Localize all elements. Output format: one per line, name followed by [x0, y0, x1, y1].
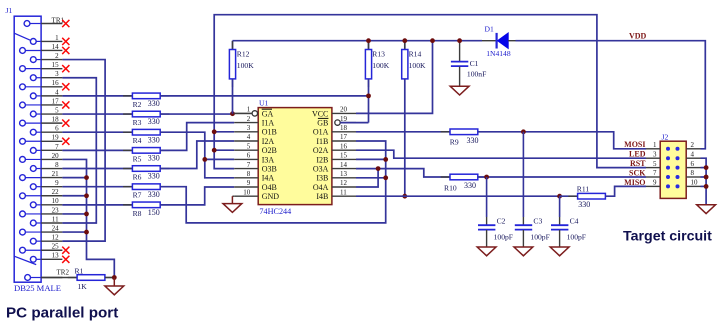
svg-text:330: 330 [148, 154, 160, 163]
J1 pin 6 [30, 129, 36, 135]
svg-text:1: 1 [247, 106, 251, 114]
svg-text:1N4148: 1N4148 [486, 49, 511, 58]
junction [430, 38, 435, 43]
svg-text:R1: R1 [75, 267, 84, 276]
no-connect X pin 18 [62, 120, 69, 127]
J2 pin 5 [666, 166, 669, 169]
junction [366, 93, 371, 98]
svg-text:16: 16 [52, 79, 60, 87]
junction [230, 111, 235, 116]
svg-text:3: 3 [55, 70, 59, 78]
svg-text:150: 150 [148, 208, 160, 217]
svg-text:8: 8 [55, 161, 59, 169]
J1 pin 13 [30, 256, 36, 262]
wire GND pin10 to ground [232, 195, 234, 197]
svg-text:18: 18 [52, 116, 60, 124]
wire J2 pin 8 to ground bus [701, 176, 707, 178]
J1 pin TR1 stub [41, 23, 62, 25]
svg-text:330: 330 [578, 200, 590, 209]
svg-text:5: 5 [653, 160, 657, 168]
resistor R3 330 [123, 113, 132, 115]
U1 pin 20 lead [332, 112, 356, 114]
svg-text:R4: R4 [133, 136, 142, 145]
wire TR2 to R1 [41, 277, 77, 279]
no-connect X pin 15 [62, 65, 69, 72]
svg-text:C1: C1 [470, 59, 479, 68]
J1 pin 17 stub [41, 104, 62, 106]
wire J1 to R4 [62, 131, 132, 133]
resistor R6 330 [123, 168, 132, 170]
svg-text:330: 330 [148, 190, 160, 199]
J2 pin 6 lead [686, 167, 700, 169]
svg-text:R7: R7 [133, 191, 142, 200]
U1 pin 17 lead [332, 140, 356, 142]
J2 pin 4 lead [686, 157, 700, 159]
J1 pin 5 stub [41, 113, 62, 115]
junction [484, 175, 489, 180]
wire R13 bottom to GB pin19 [340, 122, 368, 124]
svg-text:I3A: I3A [262, 155, 275, 164]
wire J1 pin 22 to ground bus [62, 195, 86, 197]
junction [383, 175, 388, 180]
U1 pin 14 lead [332, 168, 356, 170]
svg-text:2: 2 [247, 115, 251, 123]
U1 pin 3 lead [234, 131, 258, 133]
svg-text:DB25 MALE: DB25 MALE [14, 283, 61, 293]
svg-text:100nF: 100nF [467, 69, 486, 78]
ground symbol under C4 [550, 247, 569, 256]
J1 pin 8 stub [41, 168, 62, 170]
J2 pin 2 lead [686, 148, 700, 150]
J1 pin 23 [20, 211, 26, 217]
U1 pin 10 lead [234, 195, 258, 197]
wire J2 pin 6 to ground bus [701, 167, 707, 169]
svg-text:10: 10 [52, 197, 60, 205]
svg-text:17: 17 [52, 97, 60, 105]
svg-text:RST: RST [630, 159, 646, 168]
J1 pin 21 [20, 175, 26, 181]
svg-text:100K: 100K [409, 61, 426, 70]
no-connect X pin 25 [62, 247, 69, 254]
svg-text:3: 3 [653, 150, 657, 158]
J2 pin 7 lead [646, 176, 660, 178]
svg-text:R13: R13 [372, 50, 385, 59]
ground symbol at U1 GND [231, 196, 233, 203]
junction [212, 148, 217, 153]
ground symbol under C3 [514, 247, 533, 256]
svg-text:C4: C4 [570, 216, 579, 225]
junction [366, 38, 371, 43]
junction [457, 38, 462, 43]
svg-text:I2A: I2A [262, 137, 275, 146]
J2 pin 1 [666, 147, 669, 150]
svg-text:330: 330 [148, 117, 160, 126]
svg-text:VDD: VDD [629, 32, 647, 41]
svg-text:R12: R12 [237, 50, 250, 59]
J2 pin 3 lead [646, 157, 660, 159]
wire R3 output to GA (with R12 pullup) [160, 113, 232, 115]
svg-text:5: 5 [55, 106, 59, 114]
J1 pin 9 stub [41, 186, 62, 188]
J1 pin 11 stub [41, 222, 62, 224]
svg-text:I2B: I2B [316, 155, 328, 164]
svg-text:20: 20 [52, 152, 60, 160]
resistor R9 330 [441, 131, 450, 133]
resistor R11 330 [560, 195, 578, 197]
U1 pin 13 lead [332, 177, 356, 179]
svg-text:O2B: O2B [262, 146, 277, 155]
resistor R7 330 [123, 186, 132, 188]
svg-text:25: 25 [52, 243, 60, 251]
wire I3B branch [356, 177, 386, 179]
J1 shell pin TR1 [24, 21, 30, 27]
svg-text:MISO: MISO [624, 178, 645, 187]
ground symbol under C2 [477, 247, 496, 256]
svg-text:13: 13 [340, 170, 348, 178]
capacitor C1 100nF [459, 41, 461, 62]
svg-text:4: 4 [691, 150, 695, 158]
wire J1 to R5 [62, 149, 132, 151]
svg-text:J1: J1 [6, 6, 13, 15]
wire VDD from D1 anode to J2 pin2 [516, 41, 706, 149]
J1 pin 24 [20, 229, 26, 235]
J1 pin 3 [30, 75, 36, 81]
svg-text:I1A: I1A [262, 119, 275, 128]
wire ground bus J1 pins 20-24 [62, 159, 114, 277]
svg-text:16: 16 [340, 142, 348, 150]
svg-text:SCK: SCK [629, 168, 646, 177]
wire J1 to R2 [62, 95, 132, 97]
no-connect X pin 17 [62, 101, 69, 108]
wire I4B / MISO line [356, 195, 560, 197]
J1 pin 1 stub [41, 40, 62, 42]
svg-text:GND: GND [262, 192, 280, 201]
J1 pin 10 [30, 202, 36, 208]
svg-text:330: 330 [464, 181, 476, 190]
svg-text:I1B: I1B [316, 137, 328, 146]
J2 pin 10 lead [686, 185, 700, 187]
svg-text:13: 13 [52, 252, 60, 260]
junction [84, 193, 89, 198]
wire J1 pin 21 to ground bus [62, 177, 86, 179]
junction [704, 165, 709, 170]
svg-text:74HC244: 74HC244 [259, 207, 291, 216]
junction [84, 212, 89, 217]
connector J1 (DB25) body [14, 16, 41, 282]
no-connect X pin 1 [62, 38, 69, 45]
U1 pin 4 lead [234, 140, 258, 142]
svg-text:24: 24 [52, 224, 60, 232]
svg-text:7: 7 [653, 169, 657, 177]
J1 pin 4 stub [41, 95, 62, 97]
wire O2A to J2 LED [356, 150, 646, 158]
J1 pin 4 [30, 93, 36, 99]
J1 pin 11 [30, 220, 36, 226]
svg-text:6: 6 [691, 160, 695, 168]
wire I3A branch [205, 158, 234, 160]
svg-text:1: 1 [653, 141, 657, 149]
svg-text:4: 4 [55, 88, 59, 96]
wire J1 to R6 [62, 168, 132, 170]
svg-text:R10: R10 [444, 183, 457, 192]
wire J1 pin 23 to ground bus [62, 213, 86, 215]
svg-text:1: 1 [55, 34, 59, 42]
svg-text:9: 9 [55, 179, 59, 187]
svg-text:9: 9 [653, 179, 657, 187]
svg-text:7: 7 [55, 143, 59, 151]
junction [84, 175, 89, 180]
svg-text:21: 21 [52, 170, 60, 178]
J1 pin 15 stub [41, 68, 62, 70]
J1 pin 3 stub [41, 77, 62, 79]
J1 pin 24 stub [41, 231, 62, 233]
U1 pin 1 lead with inversion bubble [234, 112, 252, 114]
diode D1 1N4148 [482, 40, 497, 42]
U1 pin 7 lead [234, 168, 258, 170]
U1 pin 16 lead [332, 149, 356, 151]
junction [704, 175, 709, 180]
svg-text:1K: 1K [78, 282, 88, 291]
junction [376, 166, 381, 171]
svg-text:100K: 100K [237, 61, 254, 70]
J1 pin TR2 stub [41, 277, 62, 279]
svg-text:23: 23 [52, 206, 60, 214]
J2 pin 1 lead [646, 148, 660, 150]
svg-text:14: 14 [340, 161, 348, 169]
svg-text:6: 6 [247, 152, 251, 160]
wire I2B branch [356, 158, 386, 160]
resistor R8 150 [123, 204, 132, 206]
U1 pin 8 lead [234, 177, 258, 179]
J1 shell pin TR2 [25, 275, 31, 281]
svg-text:100pF: 100pF [494, 233, 513, 242]
resistor R2 330 [123, 95, 132, 97]
J1 pin 14 [20, 48, 26, 54]
wire O1B/O2B/O3B tied -> RST line over top [214, 15, 646, 169]
wire O1A to R9 [356, 131, 450, 133]
junction [202, 157, 207, 162]
resistor R10 330 [441, 176, 450, 178]
J2 pin 9 [666, 185, 669, 188]
svg-text:14: 14 [52, 43, 60, 51]
svg-text:15: 15 [52, 61, 60, 69]
J1 pin 9 [30, 184, 36, 190]
J1 pin 7 [30, 148, 36, 154]
svg-text:330: 330 [148, 135, 160, 144]
svg-text:100K: 100K [372, 61, 389, 70]
svg-text:3: 3 [247, 124, 251, 132]
svg-text:O1A: O1A [313, 128, 329, 137]
U1 pin 6 lead [234, 158, 258, 160]
junction [112, 275, 117, 280]
junction [704, 184, 709, 189]
svg-text:330: 330 [148, 172, 160, 181]
junction [383, 157, 388, 162]
U1 pin 2 lead [234, 122, 258, 124]
svg-text:12: 12 [52, 234, 60, 242]
J2 pin 3 [666, 157, 669, 160]
capacitor C4 100pF on MISO line [559, 196, 561, 217]
no-connect X pin 13 [62, 256, 69, 263]
J1 pin 7 stub [41, 149, 62, 151]
svg-text:15: 15 [340, 152, 348, 160]
U1 pin 9 lead [234, 186, 258, 188]
svg-text:I4A: I4A [262, 174, 275, 183]
wire J1 to R3 [62, 113, 132, 115]
J2 pin 10 [676, 185, 679, 188]
wire J1 pin 24 to ground bus [62, 231, 86, 233]
J1 pin 13 stub [41, 258, 62, 260]
svg-text:6: 6 [55, 125, 59, 133]
wire R7 output to B-side inputs (around chip) [160, 141, 386, 223]
wire O1B branch [214, 131, 234, 133]
wire R2 output to R13/GB junction [160, 95, 368, 97]
J1 pin 18 [20, 120, 26, 126]
resistor R12 100K (pullup on GA) [232, 41, 234, 50]
J2 pin 4 [676, 157, 679, 160]
no-connect X pin TR1 [62, 20, 69, 27]
no-connect X pin 16 [62, 83, 69, 90]
svg-text:8: 8 [691, 169, 695, 177]
svg-text:7: 7 [247, 161, 251, 169]
svg-text:11: 11 [52, 215, 59, 223]
svg-text:O4A: O4A [313, 183, 329, 192]
wire R9 to J2 MOSI [478, 132, 646, 149]
wire R4 output to I3A and I4A [160, 132, 234, 178]
J1 pin 21 stub [41, 177, 62, 179]
GB overline [318, 117, 329, 119]
J1 pin 25 [20, 247, 26, 253]
svg-text:J2: J2 [662, 133, 669, 142]
J1 pin 2 stub [41, 59, 62, 61]
svg-text:18: 18 [340, 124, 348, 132]
U1 pin 15 lead [332, 158, 356, 160]
svg-text:O1B: O1B [262, 128, 277, 137]
svg-text:I4B: I4B [316, 192, 328, 201]
J1 pin 10 stub [41, 204, 62, 206]
wire R5 output to I1A [160, 123, 234, 151]
J1 pin 16 stub [41, 86, 62, 88]
J2 pin 6 [676, 166, 679, 169]
junction [84, 230, 89, 235]
svg-text:VCC: VCC [312, 109, 328, 118]
ground symbol under R1 [113, 278, 115, 287]
no-connect X pin 14 [62, 47, 69, 54]
svg-text:19: 19 [52, 134, 60, 142]
wire R10 to J2 SCK [478, 176, 646, 178]
J1 pin 1 [30, 39, 36, 45]
J1 pin 25 stub [41, 249, 62, 251]
svg-text:8: 8 [247, 170, 251, 178]
U1 pin 19 lead with inversion bubble [340, 122, 356, 124]
svg-text:R5: R5 [133, 154, 142, 163]
J2 pin 7 [666, 175, 669, 178]
junction [402, 38, 407, 43]
svg-text:O4B: O4B [262, 183, 277, 192]
svg-text:O3B: O3B [262, 165, 277, 174]
wire J2 pin 10 to ground bus [701, 185, 707, 187]
svg-text:330: 330 [148, 99, 160, 108]
ground symbol under C1 [450, 86, 469, 95]
svg-text:U1: U1 [259, 98, 268, 107]
J2 pin 8 [676, 175, 679, 178]
J1 pin 22 stub [41, 195, 62, 197]
svg-text:R9: R9 [450, 137, 459, 146]
resistor R5 330 [123, 149, 132, 151]
svg-text:O2A: O2A [313, 146, 329, 155]
wire O2B branch [214, 149, 234, 151]
J1 pin 19 [20, 138, 26, 144]
J1 pin 2 [30, 57, 36, 63]
buffer IC U1 74HC244 body [258, 108, 332, 205]
svg-text:Target circuit: Target circuit [623, 229, 712, 245]
resistor R14 100K (pullup on MISO) [404, 41, 406, 50]
U1 pin 12 lead [332, 186, 356, 188]
svg-text:I3B: I3B [316, 174, 328, 183]
svg-text:C2: C2 [497, 216, 506, 225]
J1 pin 23 stub [41, 213, 62, 215]
svg-text:LED: LED [629, 150, 646, 159]
J1 pin 20 [20, 157, 26, 163]
svg-text:10: 10 [243, 188, 251, 196]
svg-text:R6: R6 [133, 173, 142, 182]
wire net D0: J1 pin2 to pin12 loopback [62, 60, 105, 242]
svg-text:17: 17 [340, 133, 348, 141]
junction [521, 129, 526, 134]
svg-text:20: 20 [340, 106, 348, 114]
svg-text:R11: R11 [577, 185, 590, 194]
wire R8 to O4B (PC acknowledge) [160, 187, 234, 205]
svg-text:MOSI: MOSI [624, 140, 645, 149]
svg-text:10: 10 [691, 179, 699, 187]
wire O4A riser [356, 169, 378, 187]
wire J2 ground pins 4,6,8,10 [701, 158, 707, 205]
svg-text:R2: R2 [133, 100, 142, 109]
wire net D1: J1 pin3 to pin11 loopback [62, 78, 96, 223]
wire R6 output to I2A [160, 141, 234, 169]
J1 pin 12 stub [41, 240, 62, 242]
svg-text:R14: R14 [409, 50, 422, 59]
svg-text:GA: GA [262, 109, 274, 118]
resistor R13 100K (pullup on GB) [368, 41, 370, 50]
svg-text:C3: C3 [533, 216, 542, 225]
J1 pin 17 [20, 102, 26, 108]
J1 pin 15 [20, 66, 26, 72]
svg-text:2: 2 [691, 141, 695, 149]
svg-text:330: 330 [467, 136, 479, 145]
ground symbol under J2 [697, 205, 716, 214]
pull-up rail wire [233, 40, 483, 42]
J1 pin 19 stub [41, 140, 62, 142]
GA overline [262, 108, 272, 110]
svg-text:11: 11 [340, 188, 347, 196]
U1 pin 18 lead [332, 131, 356, 133]
svg-text:GB: GB [317, 119, 328, 128]
junction [402, 194, 407, 199]
wire O3A + O4A to R10 [356, 169, 450, 177]
svg-text:19: 19 [340, 115, 348, 123]
svg-text:100pF: 100pF [567, 233, 586, 242]
J1 pin 20 stub [41, 158, 62, 160]
svg-text:22: 22 [52, 188, 60, 196]
svg-text:R8: R8 [133, 209, 142, 218]
J1 pin 8 [30, 166, 36, 172]
wire R11 to J2 MISO [605, 186, 646, 196]
svg-text:D1: D1 [485, 24, 494, 33]
svg-text:O3A: O3A [313, 165, 329, 174]
J1 pin 16 [20, 84, 26, 90]
svg-text:5: 5 [247, 142, 251, 150]
